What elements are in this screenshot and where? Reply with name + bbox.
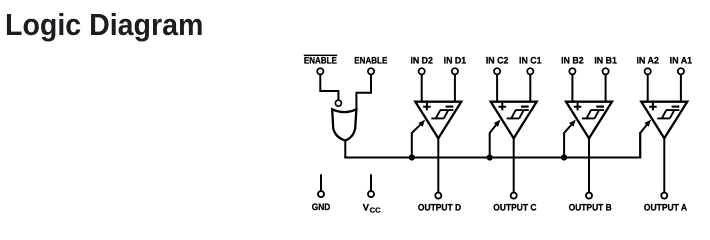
arrowhead enable of receiver B	[569, 120, 576, 127]
line receiver A (triangle body)	[641, 102, 687, 139]
hysteresis symbol of receiver B	[582, 110, 604, 118]
wire gate G1 output to enable bus	[344, 140, 346, 158]
wire enable bus riser to receiver A	[639, 132, 641, 158]
svg-text:IN A2: IN A2	[636, 55, 659, 66]
plus input mark of receiver B	[574, 103, 582, 110]
minus input mark of receiver A	[672, 105, 680, 107]
minus input mark of receiver B	[596, 105, 604, 107]
terminal ENABLE-bar pin	[317, 68, 323, 74]
terminal OUTPUT D pin	[435, 193, 441, 199]
svg-text:CC: CC	[370, 205, 381, 214]
hysteresis symbol of receiver C	[507, 110, 529, 118]
wire IN C2 to receiver	[496, 74, 498, 101]
svg-text:IN B1: IN B1	[594, 55, 617, 66]
wire enable stub of receiver C	[490, 122, 499, 157]
svg-text:ENABLE: ENABLE	[304, 55, 337, 66]
terminal VCC pin	[368, 191, 374, 197]
plus input mark of receiver C	[499, 103, 507, 110]
svg-text:OUTPUT A: OUTPUT A	[644, 201, 687, 212]
overline of ENABLE-bar	[304, 54, 337, 56]
minus input mark of receiver D	[446, 105, 454, 107]
wire IN D1 to receiver	[454, 74, 456, 101]
terminal IN D2 pin	[419, 68, 425, 74]
terminal IN A2 pin	[645, 68, 651, 74]
svg-text:OUTPUT B: OUTPUT B	[569, 201, 612, 212]
wire receiver C output	[513, 138, 515, 192]
wire VCC stub	[370, 174, 372, 191]
junction dot enable bus / receiver B	[561, 154, 567, 160]
inversion bubble on gate G1 input	[335, 100, 341, 106]
svg-text:GND: GND	[312, 201, 331, 212]
svg-text:OUTPUT D: OUTPUT D	[418, 201, 461, 212]
wire IN B1 to receiver	[605, 74, 607, 101]
wire GND stub	[320, 174, 322, 191]
wire IN B2 to receiver	[571, 74, 573, 101]
line receiver D (triangle body)	[415, 102, 461, 139]
wire enable stub of receiver D	[412, 122, 423, 157]
svg-text:OUTPUT C: OUTPUT C	[493, 201, 536, 212]
terminal IN B1 pin	[603, 68, 609, 74]
wire IN D2 to receiver	[421, 74, 423, 101]
junction dot enable bus / receiver C	[487, 154, 493, 160]
terminal ENABLE pin	[368, 68, 374, 74]
wire enable stub of receiver A	[640, 122, 649, 157]
terminal OUTPUT B pin	[586, 193, 592, 199]
arrowhead enable of receiver D	[418, 120, 425, 127]
wire enable bus (horizontal net)	[344, 157, 641, 159]
line receiver C (triangle body)	[491, 102, 537, 139]
wire ENABLE to gate input	[356, 74, 371, 110]
arrowhead enable of receiver C	[494, 120, 501, 127]
wire IN A1 to receiver	[680, 74, 682, 101]
terminal IN A1 pin	[678, 68, 684, 74]
svg-text:IN C2: IN C2	[486, 55, 509, 66]
arrowhead enable of receiver A	[644, 120, 651, 127]
hysteresis symbol of receiver A	[657, 110, 679, 118]
section title	[5, 9, 203, 43]
svg-text:IN D2: IN D2	[410, 55, 433, 66]
svg-text:IN A1: IN A1	[670, 55, 693, 66]
svg-text:IN B2: IN B2	[561, 55, 584, 66]
wire ENABLE-bar to gate bubble	[320, 74, 338, 100]
terminal OUTPUT A pin	[661, 193, 667, 199]
hysteresis symbol of receiver D	[431, 110, 453, 118]
minus input mark of receiver C	[521, 105, 529, 107]
terminal IN B2 pin	[569, 68, 575, 74]
terminal IN C2 pin	[494, 68, 500, 74]
terminal IN C1 pin	[527, 68, 533, 74]
junction dot enable bus / receiver D	[409, 154, 415, 160]
svg-text:ENABLE: ENABLE	[354, 55, 387, 66]
wire receiver D output	[437, 138, 439, 192]
wire receiver A output	[663, 138, 665, 192]
plus input mark of receiver D	[423, 103, 431, 110]
svg-text:IN C1: IN C1	[519, 55, 542, 66]
wire receiver B output	[588, 138, 590, 192]
terminal OUTPUT C pin	[511, 193, 517, 199]
plus input mark of receiver A	[649, 103, 657, 110]
wire IN A2 to receiver	[647, 74, 649, 101]
svg-text:IN D1: IN D1	[444, 55, 467, 66]
terminal IN D1 pin	[452, 68, 458, 74]
line receiver B (triangle body)	[566, 102, 612, 139]
wire enable stub of receiver B	[564, 122, 573, 157]
wire IN C1 to receiver	[529, 74, 531, 101]
OR gate G1 (enable gate, pointing down)	[332, 109, 356, 140]
terminal GND pin	[318, 191, 324, 197]
